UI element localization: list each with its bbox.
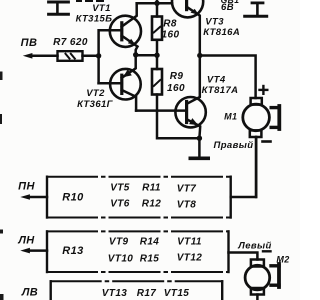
- wire box1 to M1 minus: [231, 137, 257, 197]
- node collectors junction: [197, 53, 202, 58]
- node emitters junction: [133, 52, 138, 57]
- node divider junction: [154, 53, 159, 58]
- node R8 top junction: [154, 1, 159, 6]
- cut-off text fragment top-left: [76, 0, 104, 2]
- block box 1: [47, 177, 231, 218]
- node base junction: [96, 53, 101, 58]
- transistor VT1: [100, 3, 141, 55]
- svg-text:VT3: VT3: [205, 17, 224, 28]
- svg-text:КТ361Г: КТ361Г: [77, 99, 114, 110]
- wire to motor M1 plus: [200, 56, 256, 99]
- resistor R7: [58, 51, 83, 61]
- motor M2: [245, 260, 279, 300]
- svg-text:R8: R8: [163, 19, 177, 30]
- svg-text:ЛВ: ЛВ: [21, 287, 38, 299]
- svg-text:Правый: Правый: [214, 140, 254, 151]
- wire box2 to M2: [229, 253, 258, 260]
- svg-text:R17: R17: [137, 288, 157, 299]
- page edge artifacts: [0, 72, 4, 300]
- svg-text:R15: R15: [140, 254, 160, 265]
- svg-text:КТ816А: КТ816А: [203, 27, 240, 38]
- svg-text:R9: R9: [170, 71, 184, 82]
- wire R7 to base rail: [83, 55, 99, 58]
- svg-text:VT8: VT8: [177, 200, 197, 211]
- resistor R8: [152, 0, 162, 55]
- svg-text:R10: R10: [62, 192, 84, 204]
- svg-text:6В: 6В: [221, 2, 234, 13]
- svg-text:Левый: Левый: [237, 241, 271, 252]
- label plus M1: [260, 86, 268, 94]
- wire emitters to divider: [136, 54, 157, 57]
- svg-text:VT4: VT4: [207, 75, 226, 86]
- battery GB1 left terminal (partial): [49, 2, 69, 14]
- transistor VT2: [99, 55, 141, 111]
- svg-text:ЛН: ЛН: [17, 235, 35, 247]
- block box 2: [47, 231, 229, 272]
- node PN arrow: [20, 194, 47, 200]
- node emitter-ground junction: [197, 136, 202, 141]
- svg-text:М1: М1: [224, 112, 237, 122]
- battery GB1 right terminal (partial): [245, 3, 267, 16]
- svg-text:VT11: VT11: [177, 237, 202, 248]
- label minus M2: [263, 250, 271, 252]
- wire base rail VT1-VT2: [99, 30, 100, 83]
- svg-text:VT2: VT2: [86, 88, 105, 99]
- svg-text:VT12: VT12: [177, 252, 203, 263]
- svg-text:VT7: VT7: [177, 184, 197, 195]
- svg-text:160: 160: [162, 30, 180, 41]
- svg-text:VT5: VT5: [110, 183, 130, 194]
- label minus M1: [263, 140, 271, 143]
- svg-text:160: 160: [167, 83, 185, 94]
- svg-text:R7 620: R7 620: [53, 37, 88, 48]
- svg-text:R12: R12: [142, 199, 162, 210]
- svg-text:VT1: VT1: [92, 3, 111, 14]
- svg-text:КТ315Б: КТ315Б: [76, 14, 113, 25]
- svg-text:R11: R11: [142, 183, 161, 194]
- wire to ground: [198, 138, 201, 157]
- svg-text:VT10: VT10: [108, 254, 134, 265]
- block box 3 (cut by page bottom): [51, 281, 223, 300]
- svg-text:VT15: VT15: [164, 288, 190, 299]
- svg-text:КТ817А: КТ817А: [202, 85, 239, 96]
- motor M1: [243, 98, 279, 197]
- transistor VT4: [136, 56, 206, 139]
- svg-text:R13: R13: [62, 245, 83, 257]
- svg-text:ПВ: ПВ: [21, 37, 38, 49]
- svg-text:VT13: VT13: [102, 288, 128, 299]
- transistor VT3 (partial, cut by page top): [172, 0, 203, 56]
- svg-text:VT9: VT9: [109, 237, 129, 248]
- node PV arrow: [23, 53, 58, 59]
- node LN arrow: [20, 248, 47, 254]
- resistor R9: [152, 55, 199, 138]
- ground: [190, 157, 208, 161]
- svg-text:ПН: ПН: [18, 181, 35, 193]
- svg-text:VT6: VT6: [110, 199, 130, 210]
- wire top rail: [137, 2, 172, 5]
- svg-text:R14: R14: [140, 237, 160, 248]
